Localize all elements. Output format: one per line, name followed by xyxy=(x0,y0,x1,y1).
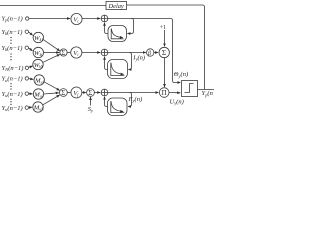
svg-text:β: β xyxy=(147,51,151,57)
svg-text:Yu(n−1): Yu(n−1) xyxy=(2,91,23,98)
svg-text:Yp(n−1): Yp(n−1) xyxy=(2,15,23,22)
svg-text:MuN: MuN xyxy=(33,104,44,111)
svg-text:Θy(n): Θy(n) xyxy=(174,71,188,78)
svg-text:Σ: Σ xyxy=(88,90,92,97)
svg-text:Mu1: Mu1 xyxy=(34,77,44,84)
svg-text:Σ: Σ xyxy=(61,90,65,97)
svg-text:YN(n−1): YN(n−1) xyxy=(2,65,24,72)
svg-text:Yu(n−1): Yu(n−1) xyxy=(2,105,23,112)
svg-text:Yk(n−1): Yk(n−1) xyxy=(2,29,23,36)
svg-text:Mui: Mui xyxy=(33,91,42,98)
svg-text:Uy(n): Uy(n) xyxy=(170,98,184,105)
svg-text:Vc: Vc xyxy=(73,16,79,23)
svg-text:Sy: Sy xyxy=(88,106,94,113)
svg-text:Vf: Vf xyxy=(73,90,79,97)
svg-text:Wki: Wki xyxy=(34,50,42,57)
svg-text:Σ: Σ xyxy=(61,50,65,57)
svg-text:Yu(n−1): Yu(n−1) xyxy=(2,76,23,83)
svg-text:Iy(n): Iy(n) xyxy=(132,54,145,61)
svg-text:Yp(n: Yp(n xyxy=(202,90,213,97)
svg-text:Delay: Delay xyxy=(108,3,124,10)
svg-text:Yk(n−1): Yk(n−1) xyxy=(2,45,23,52)
svg-text:Fy(n): Fy(n) xyxy=(128,96,143,103)
svg-text:WkN: WkN xyxy=(34,62,44,69)
svg-text:Wk1: Wk1 xyxy=(34,35,43,42)
svg-text:Σ: Σ xyxy=(162,48,166,57)
svg-text:Vi: Vi xyxy=(73,50,78,57)
svg-text:+1: +1 xyxy=(160,25,166,31)
svg-text:Π: Π xyxy=(162,89,167,97)
